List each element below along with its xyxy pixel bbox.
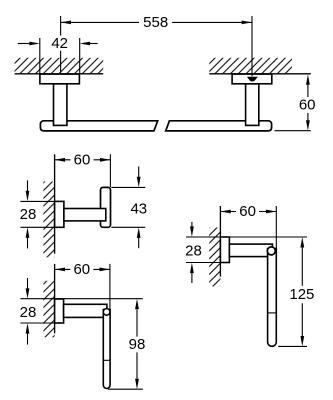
holder4 dim 60 left arrow	[220, 210, 230, 214]
holder4 dim 60 right extension line	[275, 206, 277, 249]
hook dim 28 top arrow	[27, 180, 29, 191]
holder4 dim 28 bottom extension line	[186, 262, 220, 264]
left wall line	[15, 73, 104, 75]
holder3 dim 60 right extension line	[109, 264, 111, 310]
holder4 dim 125 line	[301, 248, 303, 337]
holder4 pivot circle	[267, 247, 275, 255]
dim 60 (side) down arrow	[306, 120, 310, 130]
holder4 pin	[268, 249, 277, 347]
holder3 wall line	[54, 264, 56, 334]
hook dim 43 extension lines	[111, 187, 145, 227]
holder4 pin joint line	[268, 312, 277, 314]
holder3 pin joint line	[103, 359, 110, 361]
holder4 arm	[229, 244, 272, 257]
hook arm	[64, 209, 106, 221]
holder3 dim 98 up arrow	[135, 299, 139, 309]
svg-text:125: 125	[289, 286, 314, 303]
bar left segment	[40, 121, 157, 131]
dim 42 right arrow	[90, 43, 98, 45]
holder3 wall hatch	[43, 281, 54, 337]
svg-text:43: 43	[130, 200, 147, 217]
holder3 pin	[103, 310, 110, 389]
hook wall line	[54, 154, 56, 253]
left wall plate	[40, 74, 80, 84]
screw detail on right plate	[247, 77, 258, 82]
svg-text:28: 28	[185, 243, 202, 260]
hook dim 60 line	[55, 159, 111, 161]
left post	[54, 84, 67, 126]
holder3 dim 28 top arrow	[27, 278, 29, 289]
svg-text:28: 28	[20, 206, 37, 223]
bar right segment	[166, 121, 272, 131]
holder4 dim 60 line	[220, 211, 276, 213]
holder3 arm	[64, 304, 107, 317]
holder4 dim 28 bottom arrow	[191, 273, 193, 283]
right wall plate	[232, 74, 272, 84]
dim 42 extension lines	[40, 38, 80, 74]
holder3 dim 98 line	[136, 309, 138, 379]
right wall hatch	[209, 58, 292, 74]
svg-text:42: 42	[51, 35, 68, 52]
holder4 wall line	[219, 206, 221, 277]
svg-text:60: 60	[299, 97, 316, 114]
dim 558 right arrow	[242, 21, 252, 25]
hook front plate	[101, 187, 111, 227]
dim 60 (side) line	[307, 85, 309, 121]
holder4 wall plate	[220, 237, 229, 263]
dim 558 left arrow	[61, 21, 71, 25]
holder4 wall hatch	[209, 228, 220, 287]
svg-text:98: 98	[129, 336, 146, 353]
holder3 dim 60 line	[55, 268, 110, 270]
dim 558 extension line left / center line	[60, 16, 62, 74]
holder3 dim 60 right arrow	[100, 268, 110, 272]
svg-text:28: 28	[20, 304, 37, 321]
holder3 dim 98 bottom extension line	[108, 388, 143, 390]
dim 558 line	[61, 21, 252, 23]
hook wall hatch	[43, 182, 54, 258]
holder4 dim 28 top arrow	[191, 222, 193, 227]
hook dim 43 top arrow	[138, 167, 140, 178]
holder4 dim 60 right arrow	[266, 210, 276, 214]
holder3 dim 28 bottom extension line	[20, 322, 54, 324]
holder4 dim 125 bottom extension line	[278, 345, 307, 347]
hook wall plate	[55, 201, 64, 227]
holder3 dim 60 left arrow	[55, 268, 65, 272]
right post	[246, 84, 259, 126]
holder3 top extension line (28/98)	[20, 298, 142, 300]
hook dim 60 left arrow	[55, 158, 65, 162]
hook dim 60 right extension line	[109, 154, 111, 187]
right wall line (extends as extension line for 60)	[209, 73, 310, 75]
svg-text:60: 60	[239, 203, 256, 220]
holder3 dim 28 bottom arrow	[27, 334, 29, 345]
dim 558 extension line right	[251, 16, 253, 76]
holder3 pivot circle	[103, 309, 110, 316]
left wall hatch	[15, 58, 104, 74]
holder4 dim 125 up arrow	[300, 237, 304, 247]
dim 42 left arrow	[18, 43, 30, 45]
hook dim 43 bottom arrow	[138, 238, 140, 249]
holder4 dim 125 down arrow	[300, 336, 304, 346]
dim 60 (side) extension line on bar	[275, 130, 311, 132]
holder3 wall plate	[55, 299, 64, 323]
svg-text:558: 558	[143, 14, 168, 31]
dim 60 (side) up arrow	[306, 74, 310, 84]
holder3 dim 98 down arrow	[135, 379, 139, 389]
holder4 top extension line (28/125)	[186, 236, 307, 238]
hook dim 60 right arrow	[100, 158, 110, 162]
svg-text:60: 60	[73, 261, 90, 278]
hook dim 28 bottom arrow	[27, 237, 29, 248]
svg-text:60: 60	[74, 151, 91, 168]
hook dim 28 extension lines	[20, 201, 54, 227]
